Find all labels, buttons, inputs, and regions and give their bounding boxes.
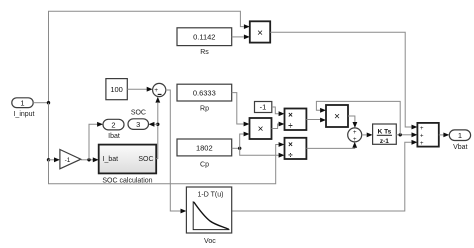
svg-text:×: × xyxy=(288,111,293,120)
svg-text:0.1142: 0.1142 xyxy=(193,32,215,41)
svg-text:2: 2 xyxy=(111,120,115,129)
svg-text:1-D T(u): 1-D T(u) xyxy=(198,191,224,198)
svg-text:3: 3 xyxy=(136,120,140,129)
gain G1 -1 xyxy=(60,150,81,169)
svg-text:0.6333: 0.6333 xyxy=(193,88,216,97)
wire divider1 to product3 xyxy=(306,119,320,121)
wire Rp to product2 xyxy=(232,93,244,124)
node Cp junction dot xyxy=(238,147,241,150)
svg-text:Ibat: Ibat xyxy=(108,133,120,140)
svg-text:I_input: I_input xyxy=(13,111,34,118)
svg-text:SOC: SOC xyxy=(138,156,153,163)
svg-text:Voc: Voc xyxy=(204,238,216,245)
svg-text:÷: ÷ xyxy=(288,121,293,130)
constant Cp 1802 xyxy=(177,139,232,168)
svg-text:1802: 1802 xyxy=(196,144,213,153)
svg-text:×: × xyxy=(288,140,293,149)
wire Cp branch to divider2 xyxy=(240,148,279,155)
wire Cp output xyxy=(232,147,240,149)
divide U3 (-1)/(Rp Cp) xyxy=(285,109,307,131)
wire product2 to divider1 xyxy=(272,124,279,129)
wire sum to Vbat port xyxy=(439,134,444,136)
wire 100 to sum circle xyxy=(127,88,147,90)
constant -1 xyxy=(255,102,272,113)
svg-text:+: + xyxy=(353,130,357,136)
svg-text:z-1: z-1 xyxy=(380,138,389,145)
constant Rp 0.6333 xyxy=(177,84,232,112)
product U5 Up*(-1/RpCp) xyxy=(326,105,348,127)
svg-text:SOC calculation: SOC calculation xyxy=(102,178,152,185)
sum S1 (100 - SOC) xyxy=(153,83,166,96)
svg-text:+: + xyxy=(420,134,424,140)
wire Rs to product1 xyxy=(232,36,244,38)
constant 100 xyxy=(106,79,127,100)
wire product3 to sum S2 top xyxy=(348,116,355,125)
output port 1 Vbat xyxy=(449,130,470,151)
svg-text:K Ts: K Ts xyxy=(378,128,392,135)
node Ibat junction dot xyxy=(87,158,90,161)
wire -1 to divider1 xyxy=(272,107,279,114)
node input junction top branch wire xyxy=(49,11,244,103)
svg-text:100: 100 xyxy=(110,85,123,94)
svg-text:×: × xyxy=(334,112,340,123)
svg-text:Vbat: Vbat xyxy=(453,144,467,151)
svg-text:Cp: Cp xyxy=(200,161,209,168)
svg-text:1: 1 xyxy=(20,98,24,107)
wire SOC branch left to port 3 xyxy=(154,123,158,125)
sum S2 xyxy=(348,128,362,143)
output port 2 Ibat xyxy=(103,119,124,140)
product U1 I*Rs xyxy=(250,21,270,42)
wire integrator to sum block input 2 xyxy=(396,134,411,136)
svg-text:Rs: Rs xyxy=(200,49,209,56)
node input junction dot xyxy=(47,101,50,104)
wire Up feedback to product3 xyxy=(316,101,400,134)
wire Voc to sum block input 3 xyxy=(232,142,412,211)
wire divider2 to sum S2 bottom xyxy=(306,145,354,148)
svg-text:×: × xyxy=(257,28,263,39)
wire Cp branch up to product2 xyxy=(240,134,244,148)
wire Ibat branch up to port 2 xyxy=(89,124,97,160)
product U2 Rp*Cp xyxy=(250,118,272,139)
svg-text:Rp: Rp xyxy=(200,105,209,112)
svg-text:I_bat: I_bat xyxy=(103,156,119,163)
svg-text:+: + xyxy=(154,87,158,94)
svg-text:+: + xyxy=(420,141,424,147)
wire sum S2 to integrator xyxy=(362,134,367,136)
wire bottom Ibat run to divider2 xyxy=(49,145,279,184)
wire junction down to gain row xyxy=(48,103,50,160)
sum S3 Vbat adder xyxy=(417,123,438,147)
wire gain to SOC calc xyxy=(81,159,93,161)
input port 1 I_input xyxy=(12,98,35,118)
output port 3 SOC xyxy=(128,109,149,129)
svg-text:+: + xyxy=(353,137,357,143)
discrete integrator K Ts/(z-1) xyxy=(373,124,397,145)
wire junction to gain input xyxy=(49,159,55,161)
svg-text:×: × xyxy=(258,124,264,135)
node SOC junction dot xyxy=(156,123,159,126)
wire SOC output up to sum S1 xyxy=(156,103,158,159)
wire I_input to junction xyxy=(33,102,48,104)
constant Rs 0.1142 xyxy=(177,28,232,56)
wire sum S1 to Voc lookup xyxy=(166,90,181,211)
lookup table Voc 1-D T(u) xyxy=(186,187,231,245)
svg-text:1: 1 xyxy=(458,131,462,140)
svg-text:÷: ÷ xyxy=(288,151,293,160)
node integrator output junction dot xyxy=(399,133,402,136)
divide U4 Ibat/Cp xyxy=(285,138,307,160)
svg-text:SOC: SOC xyxy=(131,109,146,116)
svg-text:-1: -1 xyxy=(260,103,267,112)
svg-text:+: + xyxy=(420,126,424,132)
wire product1 output to sum input 1 xyxy=(270,32,411,127)
node gain-row junction dot xyxy=(47,158,50,161)
svg-text:-1: -1 xyxy=(65,157,71,164)
subsystem SOC calculation xyxy=(99,145,157,185)
